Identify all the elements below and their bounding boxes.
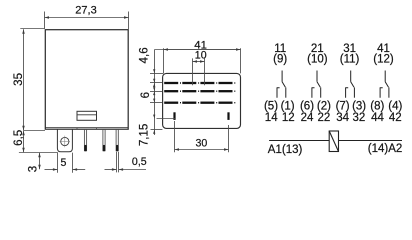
svg-text:(14)A2: (14)A2 <box>368 143 403 155</box>
dimension 6 (pin row spacing) <box>150 92 162 103</box>
pole 3 bottom labels <box>336 100 367 124</box>
dimension 4,6 (top edge to pin row 1) <box>150 50 163 136</box>
schematic pole 4 : labels 41 (12) <box>373 43 394 65</box>
dimension 3 (tab to pin tip) <box>39 153 41 170</box>
dimension 0,5 (pin thickness) <box>105 152 147 173</box>
pole 1 NO contact <box>277 87 280 97</box>
schematic pole 3 : labels 31 (11) <box>340 43 360 65</box>
svg-text:34: 34 <box>336 112 349 124</box>
pole 4 common wire <box>384 71 386 82</box>
svg-text:(4): (4) <box>388 100 402 112</box>
label window side wall ticks on base <box>77 128 97 130</box>
pole 1 NC contact <box>285 87 287 97</box>
svg-text:24: 24 <box>301 112 314 124</box>
pole 4 NC contact <box>388 87 390 97</box>
coil wire right <box>339 140 403 142</box>
mounting tab <box>57 129 72 152</box>
svg-text:6: 6 <box>139 92 152 98</box>
svg-text:10: 10 <box>195 49 207 61</box>
svg-text:(1): (1) <box>281 100 295 112</box>
pole 3 NO contact <box>346 87 349 97</box>
svg-text:4,6: 4,6 <box>137 47 150 63</box>
svg-text:(11): (11) <box>340 53 360 65</box>
coil wire left <box>269 140 329 142</box>
svg-text:A1(13): A1(13) <box>268 144 303 156</box>
dimension 6,5 (tab height) <box>19 131 58 153</box>
dimension 27,3 (width of body) <box>45 12 129 30</box>
pole 2 NC contact <box>320 87 322 97</box>
coil U1 <box>329 131 338 152</box>
pole 2 common wire <box>316 71 318 82</box>
svg-text:12: 12 <box>282 112 295 124</box>
pole 4 NO contact <box>380 87 383 97</box>
svg-text:14: 14 <box>265 112 278 124</box>
pole 2 switch blade <box>317 82 320 88</box>
pole 1 switch blade <box>282 82 285 88</box>
pin row 3 (bottom view) <box>164 102 232 104</box>
pin row 2 (bottom view) <box>164 90 232 92</box>
svg-text:(6): (6) <box>300 100 314 112</box>
pole 2 bottom labels <box>300 100 331 124</box>
schematic pole 2 : labels 21 (10) <box>307 43 328 65</box>
relay bottom view outline <box>163 73 241 128</box>
pin 3 (front view) <box>116 129 118 151</box>
pole 4 switch blade <box>385 82 388 88</box>
relay front view body <box>45 30 128 130</box>
dimension 41 (bottom view width) <box>155 48 241 73</box>
coil pin right (bottom view) <box>227 112 229 120</box>
pin 2 (front view) <box>103 129 105 151</box>
svg-text:(8): (8) <box>370 100 384 112</box>
svg-text:27,3: 27,3 <box>75 5 96 17</box>
dimension 10 (pin spacing) <box>193 58 205 85</box>
svg-text:30: 30 <box>196 137 208 149</box>
svg-text:22: 22 <box>318 112 331 124</box>
dimension 30 (coil pin spacing) <box>175 121 229 152</box>
pole 3 NC contact <box>353 87 355 97</box>
svg-text:6,5: 6,5 <box>12 130 25 146</box>
svg-text:7,15: 7,15 <box>137 124 150 147</box>
label window on front <box>77 111 97 120</box>
svg-text:(5): (5) <box>264 100 278 112</box>
pole 4 bottom labels <box>370 100 402 124</box>
svg-text:(3): (3) <box>352 100 366 112</box>
svg-text:0,5: 0,5 <box>132 156 147 168</box>
pole 1 common wire <box>281 71 283 82</box>
pole 3 common wire <box>350 71 352 82</box>
svg-text:44: 44 <box>371 112 384 124</box>
coil pin left (bottom view) <box>173 112 175 120</box>
schematic pole 1 : labels 11 (9) <box>273 43 287 65</box>
pole 2 NO contact <box>312 87 315 97</box>
dimension 5 (tab width) <box>45 153 86 173</box>
svg-text:(2): (2) <box>317 100 331 112</box>
pin 1 (front view) <box>84 129 86 151</box>
dimension 35 (height of body) <box>20 29 44 131</box>
mounting hole <box>61 137 69 145</box>
svg-text:32: 32 <box>353 112 366 124</box>
svg-text:3: 3 <box>27 166 40 172</box>
svg-text:42: 42 <box>389 112 402 124</box>
svg-text:5: 5 <box>60 157 66 169</box>
svg-text:(12): (12) <box>373 53 394 65</box>
svg-text:35: 35 <box>12 73 25 86</box>
pin row 1 (bottom view) <box>164 82 232 84</box>
svg-text:(7): (7) <box>336 100 350 112</box>
svg-text:(10): (10) <box>307 53 328 65</box>
dimension 7,15 (row 3 to coil pin row) <box>151 119 176 130</box>
svg-text:(9): (9) <box>273 53 287 65</box>
pole 3 switch blade <box>351 82 354 88</box>
pole 1 bottom labels <box>264 100 295 124</box>
hole centerlines <box>60 136 70 148</box>
